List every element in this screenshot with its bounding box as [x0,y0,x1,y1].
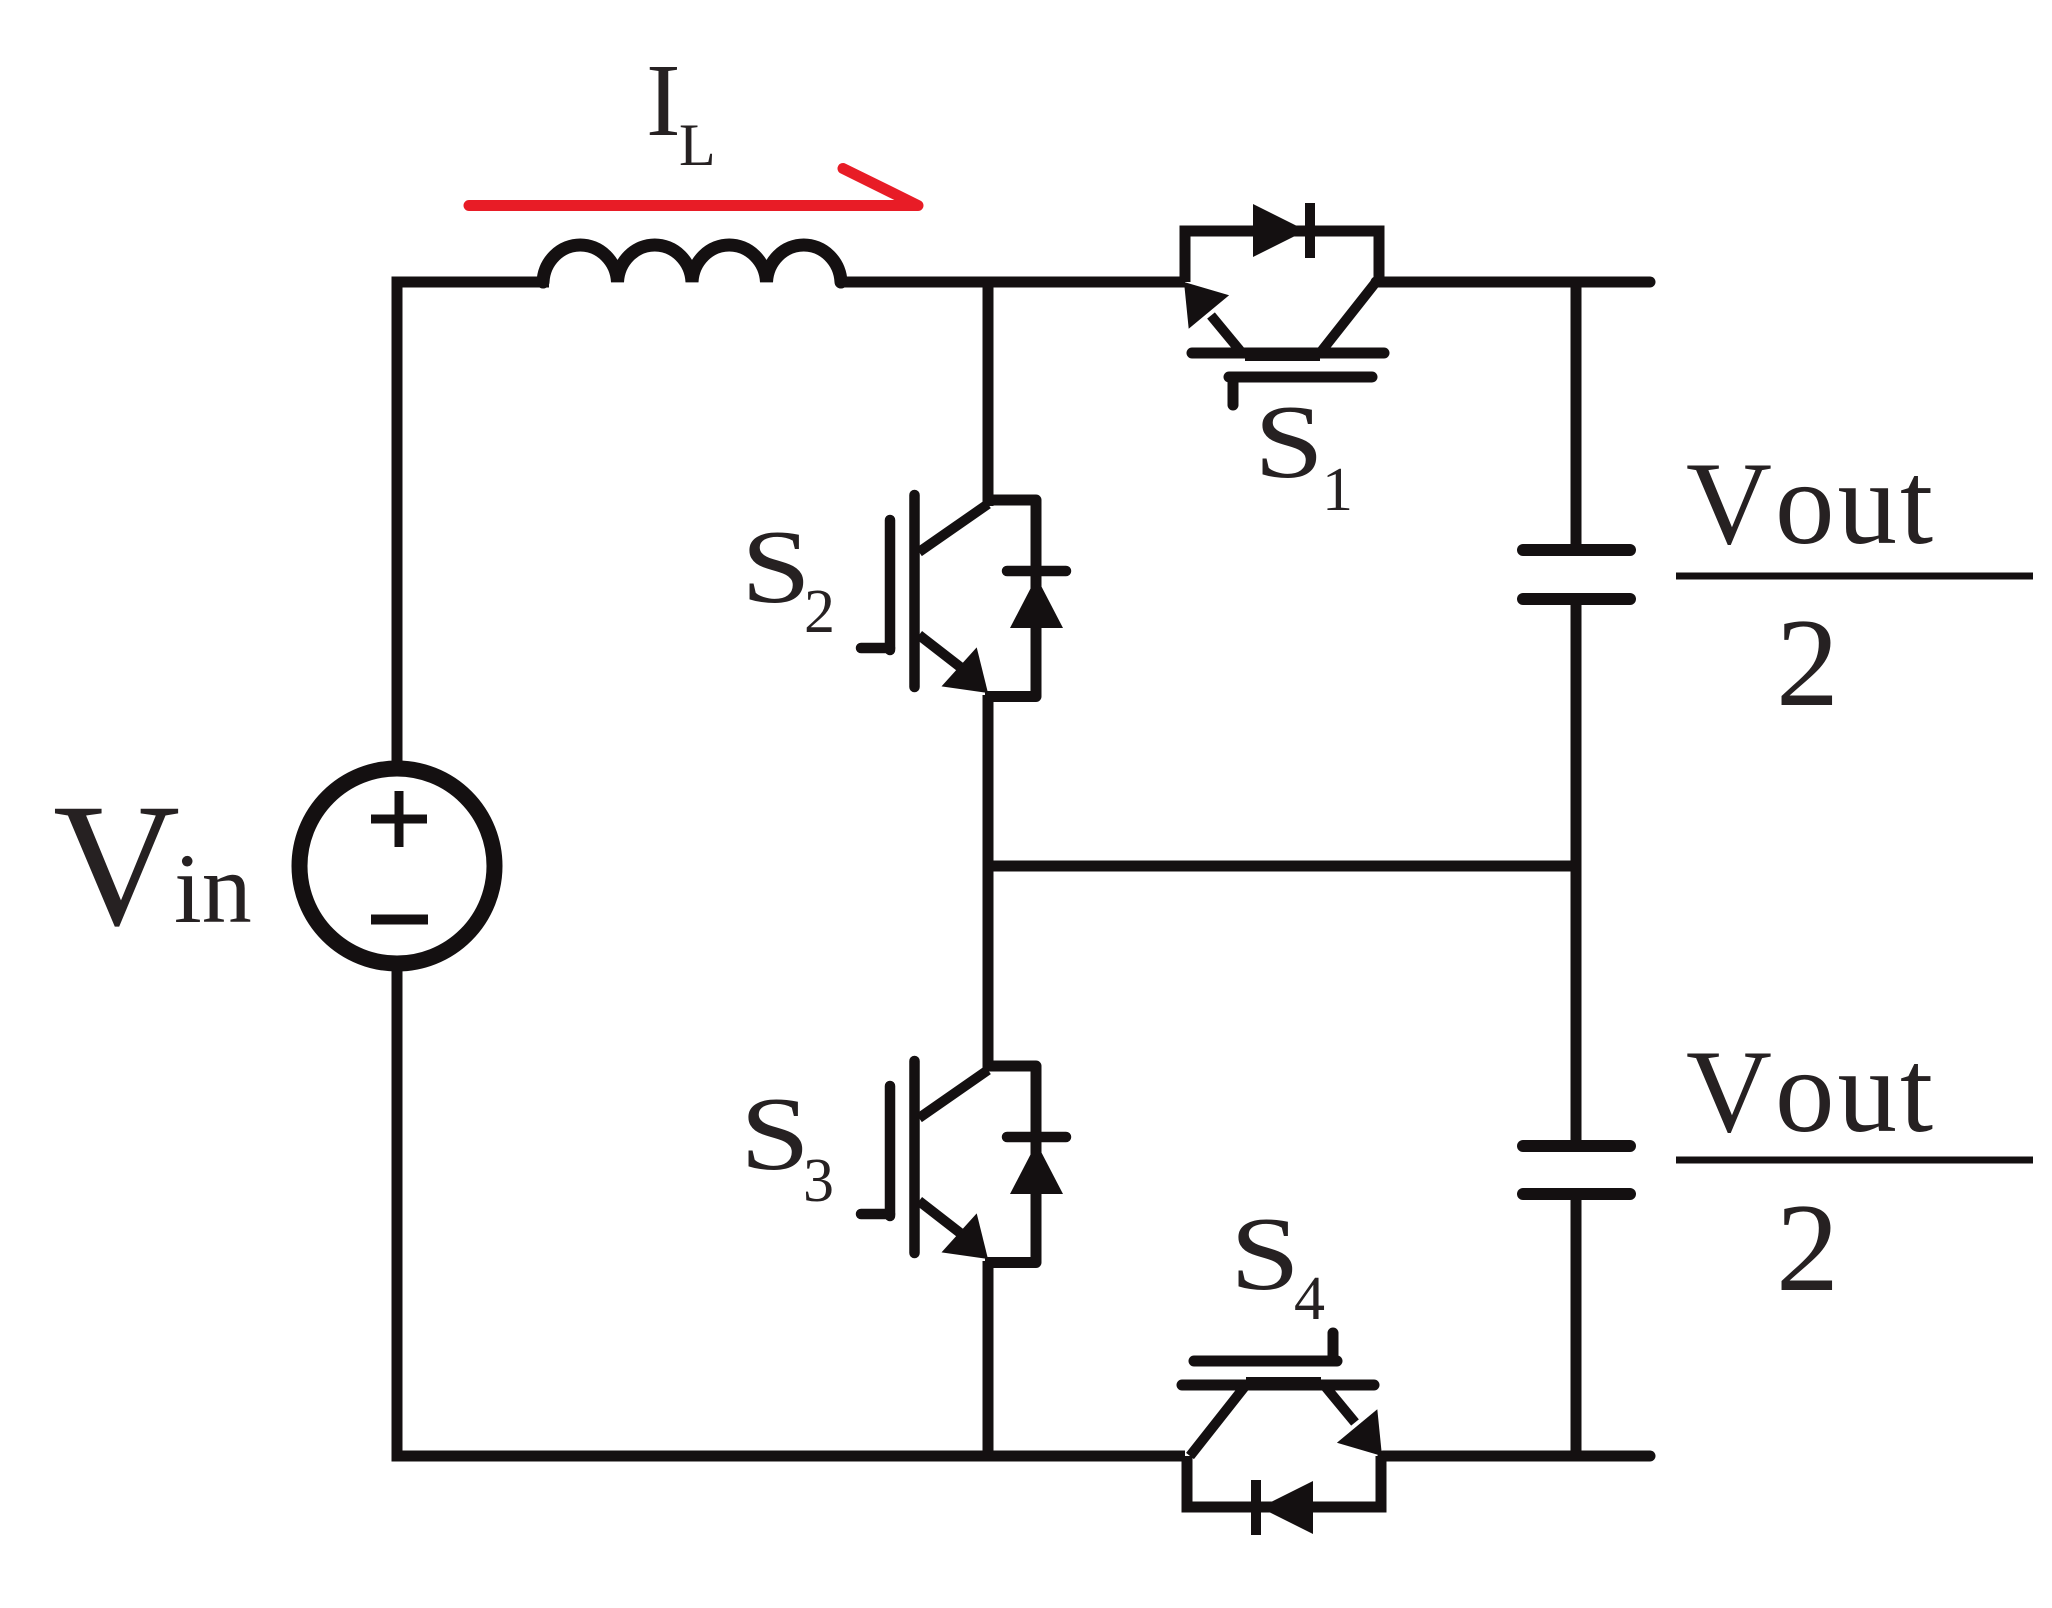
S3 antiparallel diode [1007,1132,1066,1143]
IGBT S2 (vertical, upper middle) [861,495,1066,697]
S3 emitter arrowhead [942,1213,989,1259]
IGBT S1 (horizontal, top) [1184,203,1384,405]
svg-text:Vout: Vout [1686,437,1936,569]
IGBT S3 (vertical, lower middle) [861,1061,1066,1263]
S4 collector/emitter legs [1324,1385,1355,1423]
S1 collector/emitter legs [1211,316,1242,354]
Vin plus sign [371,791,427,847]
S1 body bar [1192,348,1384,359]
fraction bar (upper Vout/2) [1676,573,2033,580]
S3 collector slant and top jog [919,1070,988,1118]
antiparallel diode loop of S1 [1185,231,1379,282]
S4 gate bar and lead [1194,1356,1337,1367]
wire: S2 collector drop from top wire [983,282,994,506]
capacitor C1 (upper Vout/2) [1523,550,1630,599]
S1 emitter arrowhead [1184,282,1229,329]
svg-text:1: 1 [1322,456,1353,524]
wire: right rail middle segment [1571,598,1582,1147]
fraction bar (lower Vout/2) [1676,1157,2033,1164]
svg-text:S: S [741,508,811,625]
Vin minus sign [371,915,428,925]
S3 gate bar and foot [885,1086,896,1216]
svg-text:3: 3 [803,1147,834,1215]
wire: inductor to S1 left node [841,277,1185,288]
S2 body bar [909,495,920,687]
S2 emitter slant [919,635,966,672]
wire: right rail bottom segment [1571,1193,1582,1456]
S3 body bar [909,1061,920,1253]
IGBT S4 (horizontal, bottom) = S1 rotated 180deg [1182,1333,1382,1535]
S2 gate bar and foot [885,520,896,650]
svg-text:2: 2 [804,578,835,646]
svg-text:I: I [646,43,681,158]
S4 body bar [1182,1380,1374,1391]
voltage source Vin circle [300,769,495,964]
svg-text:V: V [53,768,180,963]
red inductor current arrow IL [469,169,918,206]
wire: middle horizontal link to right rail [988,861,1576,872]
S2 antiparallel diode [1007,566,1066,577]
S3 emitter slant [919,1201,966,1238]
wire: bottom-left corner + bottom run to S4 left node [397,968,1185,1456]
svg-text:in: in [174,833,252,944]
S4 emitter arrowhead [1337,1409,1382,1456]
antiparallel diode loop of S4 [1187,1456,1381,1507]
wire: right rail top segment [1571,277,1582,551]
inductor L [543,245,841,282]
capacitor C2 (lower Vout/2) [1523,1146,1630,1194]
S2 emitter arrowhead [942,647,989,693]
svg-text:Vout: Vout [1686,1025,1936,1157]
wire: S3 emitter down to bottom wire [983,1261,994,1456]
wire: S1 right node to top-right end [1376,277,1650,288]
S1 gate bar and lead [1229,372,1372,383]
wire: left vertical + top-left corner [397,282,549,764]
svg-text:2: 2 [1776,1179,1839,1318]
wire: bottom run from S4 right node to right end [1383,1451,1650,1462]
svg-text:4: 4 [1294,1265,1325,1333]
svg-text:S: S [740,1075,810,1192]
svg-text:2: 2 [1776,594,1839,733]
svg-text:L: L [679,112,716,178]
S2 collector slant and top jog [919,504,988,552]
svg-text:S: S [1254,383,1324,500]
wire: S2 emitter to S3 collector through middle node [983,695,994,1068]
svg-text:S: S [1230,1195,1300,1312]
